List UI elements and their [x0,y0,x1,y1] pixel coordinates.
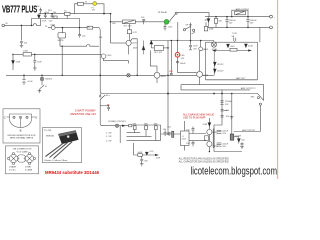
node [167,47,169,49]
wire psu top [205,16,270,18]
terminal OUT- [270,26,273,29]
svg-text:DIE CONNECTION: DIE CONNECTION [13,149,32,151]
svg-text:1 - 5W: 1 - 5W [106,132,112,134]
pin B lead [20,119,22,128]
capacitor C14 [246,17,249,28]
wire [104,58,129,63]
capacitor C22 [192,141,195,147]
svg-text:50V: 50V [49,21,53,23]
node [226,27,228,29]
wire stair 3 [127,140,161,142]
svg-text:4001: 4001 [230,46,235,48]
wire stair 1 [127,132,141,134]
arrow [122,125,125,127]
wire relay link [177,13,209,17]
node [61,75,63,77]
fuse F1 [129,125,132,127]
wire input [5,24,41,26]
resistor R5 [127,24,131,41]
svg-text:ZD12V: ZD12V [217,64,224,66]
capacitor C6 [78,19,81,38]
wire [141,155,143,159]
svg-text:47uF: 47uF [193,46,198,48]
svg-text:+47uF: +47uF [44,12,51,14]
transistor Q1 [51,26,55,30]
capacitor C12 electrolytic [189,45,192,50]
svg-text:TO-126: TO-126 [44,130,52,132]
IC M1 [58,33,66,38]
diode D10 [245,44,248,47]
COMPONENTS top-left [2,2,106,93]
wire bridge bypass [232,10,248,16]
resistor R3 [87,26,93,29]
wire second rail [31,18,79,20]
svg-text:SP SW: SP SW [186,25,193,27]
node [136,75,138,77]
bias network U3 [205,136,209,141]
LED green PL2 [164,19,169,24]
capacitor C26 [164,130,167,136]
capacitor C34 [100,105,110,111]
node [215,16,217,18]
resistor R8 [133,126,136,133]
capacitor C11 [176,61,179,62]
lamp PL4 [115,124,118,127]
svg-text:10: 10 [45,86,48,88]
box outline [6,146,39,174]
svg-text:104: 104 [186,129,190,131]
pin C dash [7,116,10,118]
red note power [71,109,97,117]
capacitor C17 electrolytic [220,101,223,105]
capacitor C28 striped [172,131,174,137]
transistor package outline [10,114,32,128]
svg-text:USE TO PLAN AMP: USE TO PLAN AMP [183,117,206,120]
MAIN-WIRES [5,4,270,159]
node [190,40,192,42]
node [213,93,215,95]
terminal OUT+ [270,15,273,18]
wire mid rail2 [231,94,233,135]
svg-text:RLY 12V: RLY 12V [124,26,132,28]
node [171,40,173,42]
svg-text:SPk: SPk [251,97,255,99]
svg-text:AMP OUTPUT: AMP OUTPUT [242,129,256,132]
ground [140,164,144,166]
svg-text:100R: 100R [137,152,142,154]
svg-text:C: C [4,115,6,119]
svg-text:TR RELAY: TR RELAY [158,11,168,14]
svg-text:AMP OUTPUT 2: AMP OUTPUT 2 [241,87,257,90]
switch SW4 [99,95,105,100]
zener ZD1 [213,62,216,65]
capacitor C33 [170,73,173,74]
svg-text:RESISTOR USE 12V: RESISTOR USE 12V [71,112,97,116]
svg-text:4148: 4148 [16,62,21,64]
box outline [43,128,82,163]
svg-text:10K: 10K [218,20,222,22]
box outline [3,109,40,143]
wire [20,25,22,40]
wire box bottom [206,79,258,81]
svg-text:12V: 12V [92,9,96,11]
wire [34,54,36,60]
wire red-led rail [177,41,179,53]
svg-text:LED: LED [168,27,172,29]
svg-text:104: 104 [163,129,167,131]
svg-text:104: 104 [226,110,230,112]
capacitor C30 electrolytic [217,130,222,134]
capacitor C27 [168,132,171,136]
arrow [155,154,158,156]
svg-text:NEW ORIGINAL PARTS: NEW ORIGINAL PARTS [10,137,34,140]
wire zd rail [213,51,215,76]
diode D9 [227,44,230,47]
wire [59,38,61,46]
filter cap bank FC1 [213,129,215,149]
transistor bevel [59,131,77,137]
wire [99,94,101,96]
svg-text:licotelecom.blogspot.com: licotelecom.blogspot.com [191,165,278,177]
capacitor C7 [33,61,36,65]
svg-text:+47uF: +47uF [27,81,34,83]
capacitor C31 electrolytic [217,143,222,147]
svg-text:50V: 50V [250,23,254,25]
resistor R6 [204,22,207,31]
capacitor C21 [192,127,195,134]
svg-text:AMP OUTPUT: AMP OUTPUT [236,8,250,11]
triac TR1 [230,134,234,140]
wire [186,133,206,135]
wire [110,14,112,22]
wire tap rail [119,126,121,143]
wire q4 link [150,50,152,66]
svg-text:2200uF: 2200uF [229,20,237,22]
jumper X1 [127,74,129,76]
mounting hole [67,135,70,138]
svg-text:25V: 25V [222,146,226,148]
bridge plate [18,155,26,162]
transistor Q7 [207,129,212,134]
svg-text:5 WATT POWER: 5 WATT POWER [75,109,95,113]
diode D8 [208,123,211,127]
svg-text:2 EMIT: 2 EMIT [25,166,32,168]
wire [208,135,210,142]
node [226,16,228,18]
relay contact RLY2 [235,11,246,15]
wire [40,19,42,26]
svg-text:AMP OUT: AMP OUT [236,77,246,80]
pin circle 1 [13,116,15,118]
node [221,93,223,95]
wire [30,19,32,26]
resistor R7 [214,17,217,28]
node [167,75,169,77]
wire q5 base [178,72,197,74]
capacitor C19 [221,116,224,117]
capacitor C1 [39,8,42,14]
tiny component value labels [6,2,276,163]
wire [161,133,181,135]
node [167,133,169,135]
svg-text:VB777 PLUS: VB777 PLUS [2,5,37,16]
wire [259,27,261,42]
svg-text:MJE340: MJE340 [46,136,55,138]
svg-text:+: + [274,17,276,19]
transistor Q5 [197,51,203,85]
COMPONENTS psu right [206,11,273,119]
svg-text:IN: IN [6,23,9,25]
svg-text:104: 104 [226,116,230,118]
svg-text:RLY 12V: RLY 12V [154,52,162,54]
wire [100,123,103,126]
svg-text:1 Emitter 2 Collector 3 Ba: 1 Emitter 2 Collector 3 Base [44,159,68,162]
svg-text:12V: 12V [181,58,185,60]
svg-text:25V: 25V [193,49,197,51]
capacitor C29 [140,159,143,163]
node [247,27,249,29]
node [110,13,112,15]
wire speaker line [103,93,258,95]
svg-text:MJ15024 SUBSTITUTE FOR: MJ15024 SUBSTITUTE FOR [8,135,36,137]
node [247,16,249,18]
red note changes [183,114,214,120]
svg-text:4 CASE: 4 CASE [25,168,33,171]
LED yellow PL1 [93,2,97,6]
svg-text:10uF: 10uF [37,61,42,63]
svg-text:LED: LED [181,55,185,57]
svg-text:47uF: 47uF [42,21,47,23]
capacitor C2 [44,14,47,19]
wire spk return [259,105,261,131]
transistor Q8 [207,141,212,146]
node [62,27,64,29]
svg-text:1K: 1K [45,26,48,28]
pink page border [277,0,279,179]
transistor Q3 [111,39,138,76]
svg-text:4148: 4148 [203,124,208,126]
capacitor C32 [241,142,244,145]
svg-text:C2073: C2073 [132,42,139,44]
capacitor C3 [51,14,54,19]
wire [186,140,206,142]
svg-text:MR9434 substitute 3D1446: MR9434 substitute 3D1446 [45,170,99,175]
wire m1 drop [61,46,63,75]
svg-text:C5198: C5198 [235,136,242,138]
wire [12,54,14,70]
ground [230,116,234,119]
wire out band1 [181,84,264,86]
svg-text:S.Lk: S.Lk [106,95,110,97]
sense line [213,48,251,51]
resistor R12 [155,126,158,141]
node [45,13,47,15]
capacitor C8 electrolytic [22,75,25,85]
trimmer VR1 [40,75,44,89]
svg-text:B: B [20,129,22,133]
node [231,93,233,95]
svg-text:104: 104 [82,36,86,38]
svg-text:B633: B633 [203,49,209,51]
psu box U4 [206,42,258,80]
switch SW3 [257,94,263,106]
diode D1 [12,61,15,65]
wire [61,28,63,33]
resistor R4 [23,53,31,56]
svg-text:3 - 5W: 3 - 5W [106,140,112,142]
pin circle 3 [26,116,28,118]
svg-text:-: - [274,28,275,30]
wire long mid rail [167,41,169,135]
node [177,40,179,42]
wire [170,41,172,74]
svg-text:ALL CAPACITOR 50V UNLESS AS SP: ALL CAPACITOR 50V UNLESS AS SPECIFIED [179,161,229,164]
svg-text:4001: 4001 [133,47,138,49]
wire stair 2 [127,135,152,137]
meter M2 [211,42,216,47]
node [21,25,23,27]
wire out band2 [181,89,250,91]
svg-text:104: 104 [24,42,28,44]
wire psu mid [205,26,270,28]
wire psu2 bus [214,151,242,153]
wire [177,57,179,73]
node [62,46,63,47]
resistor R9 [145,126,148,137]
ground [33,68,37,70]
svg-text:10R: 10R [169,71,173,73]
node [51,13,53,15]
wire [177,22,179,41]
wire stage2 bus [48,27,99,29]
wire top rail [39,13,111,15]
wire LED feed [84,3,93,5]
pin circle 2 [19,116,21,118]
wire bus B [111,21,171,23]
wire power control line [103,125,129,127]
resistor R1 [65,12,71,18]
wire [99,100,101,124]
svg-text:104: 104 [36,6,40,8]
svg-text:100uF: 100uF [180,63,186,65]
capacitor C9 [142,20,145,25]
leg 3 [54,142,73,159]
svg-text:10K: 10K [112,23,116,25]
capacitor C5 [20,42,23,46]
diode D2 [142,41,145,55]
switch SW2 [183,26,194,33]
wire [34,64,36,68]
photo box TO-126 [43,128,82,163]
transistor body [59,131,79,144]
capacitor C4 [54,16,57,19]
node [41,75,43,77]
svg-text:T 12V: T 12V [232,33,238,35]
svg-text:10K: 10K [99,37,103,39]
node [103,13,105,15]
svg-text:35V: 35V [225,104,229,106]
svg-text:C945: C945 [107,55,113,57]
resistor R2 [75,2,84,13]
transistor Q4 [150,66,160,83]
svg-text:25V: 25V [144,160,148,162]
ground [240,145,244,149]
svg-text:50V: 50V [229,23,233,25]
wire [97,4,104,14]
svg-text:TO-3 CASE: TO-3 CASE [16,150,28,153]
wire low branch [134,154,158,156]
wire [110,22,112,43]
node [110,21,112,23]
svg-text:104: 104 [141,17,145,19]
node [31,25,33,27]
svg-text:POWER CONTROL: POWER CONTROL [108,121,127,123]
TO-3 can right [24,153,36,165]
svg-text:2 - 5W: 2 - 5W [106,136,112,138]
wire [160,125,162,141]
svg-text:100K: 100K [23,50,28,52]
wire [208,147,210,152]
wire spk col [263,85,265,101]
node [231,16,233,18]
svg-text:104: 104 [241,139,245,141]
wire amp out wire [234,131,261,133]
wire right rail [214,90,222,152]
leg 2 [50,143,68,158]
capacitor C13 [225,17,228,28]
bottom-left pinout box 2 [6,146,39,174]
capacitor C10 [164,24,167,31]
relay RLY1 [122,20,135,24]
svg-text:E: E [35,115,37,119]
TO-3 can left [8,153,20,165]
capacitor C18 [221,110,228,111]
svg-text:4.7K: 4.7K [133,32,138,34]
switch SW1 [170,12,177,21]
wire driver rail [184,121,186,131]
svg-text:5A: 5A [232,35,235,38]
COMPONENTS bottom [99,95,243,166]
svg-text:3 COLL: 3 COLL [9,169,17,171]
diode D3 [207,17,210,28]
svg-text:ZD12V: ZD12V [217,71,224,73]
pin E dash [32,116,35,118]
diode D11 [38,14,41,19]
svg-text:2200uF: 2200uF [250,20,258,22]
relay coil RLY1b [150,41,168,51]
svg-text:25V: 25V [222,133,226,135]
svg-text:MUTE: MUTE [58,40,64,42]
node [167,93,169,95]
svg-text:B633: B633 [161,76,167,78]
diode D6 [234,137,240,144]
bottom-left pinout box 1 [3,109,40,143]
wire main low bus [6,74,214,76]
zener ZD2 [213,69,216,72]
wire [133,143,135,155]
node [12,54,14,56]
wire q rail [208,118,210,129]
resistor R11 [138,154,143,157]
input jack J1 [2,24,5,27]
wire [190,23,192,45]
svg-text:M12V: M12V [212,49,218,51]
wire emitter bus [132,124,161,126]
svg-text:SW103: SW103 [45,79,52,81]
node [99,74,101,76]
junction node A [127,74,130,77]
ground [38,89,42,93]
